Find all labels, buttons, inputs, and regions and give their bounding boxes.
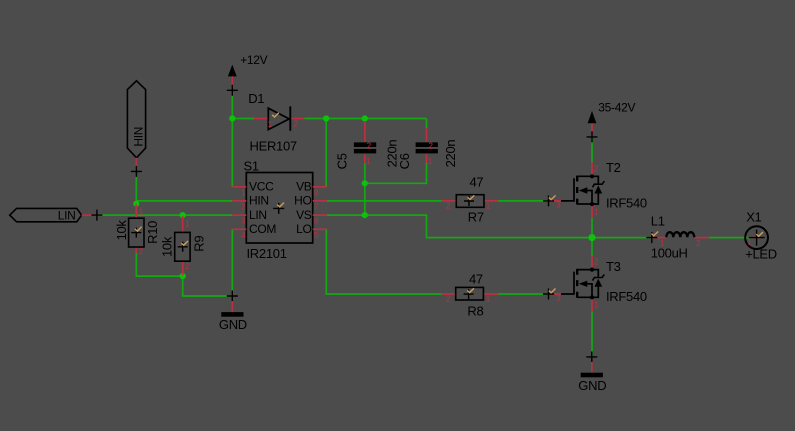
wire T3 source down to GND <box>591 311 593 357</box>
svg-text:LO: LO <box>296 222 311 236</box>
svg-text:HO: HO <box>294 194 311 208</box>
wire L1 to X1 <box>709 237 751 239</box>
node D1 cathode / VB bootstrap junction <box>323 115 329 121</box>
svg-text:35-42V: 35-42V <box>598 101 635 115</box>
wire +12V node to D1 anode <box>232 118 254 120</box>
svg-text:+LED: +LED <box>745 247 777 262</box>
pin cross T3 gate with origin mark <box>543 289 556 300</box>
svg-text:HIN: HIN <box>132 127 146 147</box>
capacitor C5 220n <box>354 121 376 163</box>
pin cross +12V <box>227 85 238 96</box>
svg-text:C6: C6 <box>397 153 412 169</box>
resistor R10 10k <box>129 204 144 253</box>
svg-text:10k: 10k <box>159 236 174 257</box>
svg-text:220n: 220n <box>443 140 458 168</box>
svg-text:+12V: +12V <box>240 53 267 67</box>
pin VB (pin 8) of S1 <box>313 186 327 188</box>
wire 35-42V supply down to T2 drain <box>591 137 593 162</box>
svg-text:R9: R9 <box>191 236 206 252</box>
svg-text:10k: 10k <box>114 220 129 241</box>
svg-text:R10: R10 <box>145 221 160 244</box>
svg-text:T3: T3 <box>606 259 621 274</box>
ground GND (left, COM) <box>221 291 243 317</box>
node switch-node junction <box>588 234 595 241</box>
inductor L1 100uH <box>652 232 709 237</box>
node VS net junction <box>362 212 368 218</box>
supply 35-42V <box>588 111 597 137</box>
wire LIN flag to IC pin LIN <box>97 214 232 216</box>
wire HO pin to R7 <box>327 200 442 202</box>
wire cap-bottom node down to VS net <box>364 183 366 215</box>
op-amp U1 : IC S1 IR2101 gate driver box <box>246 173 312 244</box>
svg-text:GND: GND <box>219 317 247 332</box>
pin HIN (pin 2) of S1 <box>232 200 246 202</box>
wire +12V rail down to VCC <box>231 90 233 187</box>
svg-text:VB: VB <box>296 180 312 194</box>
svg-text:X1: X1 <box>746 209 761 224</box>
wire R8 to T3 gate <box>498 293 548 295</box>
svg-text:VCC: VCC <box>249 180 274 194</box>
transistor T3 IRF540 <box>549 256 605 312</box>
svg-text:IR2101: IR2101 <box>247 246 287 261</box>
svg-text:HER107: HER107 <box>250 139 297 154</box>
svg-text:HIN: HIN <box>249 194 269 208</box>
node +12V / D1 anode junction <box>229 115 235 121</box>
wire T2 source down to switch node <box>591 218 593 238</box>
node LIN / R9 junction <box>180 212 186 218</box>
pin HO (pin 7) of S1 <box>313 200 327 202</box>
svg-text:C5: C5 <box>335 153 350 169</box>
pin cross L1 with origin mark <box>646 232 658 244</box>
node R9/R10 bottom junction <box>180 273 186 279</box>
pin cross LIN <box>91 210 102 221</box>
resistor R8 47 <box>441 287 498 300</box>
ground GND (right, T3 source) <box>581 351 603 377</box>
wire R7 to T2 gate <box>498 200 548 202</box>
svg-text:LIN: LIN <box>58 208 76 222</box>
wire cap-bottom node to C6 bottom <box>365 163 427 184</box>
wire R9/R10 node to GND <box>183 276 233 296</box>
capacitor C6 220n <box>416 128 438 163</box>
wire R10 bottom to node <box>136 253 182 276</box>
pin COM (pin 4) of S1 <box>232 228 246 230</box>
wire C5 bottom to node <box>364 163 366 184</box>
wire switch node down to T3 drain <box>591 238 593 256</box>
wire switch node to L1 <box>592 237 652 239</box>
transistor T2 IRF540 <box>549 162 605 218</box>
node C5/C6 bottom junction <box>362 180 368 186</box>
svg-text:R7: R7 <box>468 209 484 224</box>
wire HIN node to IC pin HIN <box>136 200 232 202</box>
svg-text:COM: COM <box>249 222 276 236</box>
node HIN / R10 junction <box>133 201 139 207</box>
wire HIN flag down to node <box>135 176 137 204</box>
resistor R7 47 <box>441 195 498 208</box>
svg-text:IRF540: IRF540 <box>606 289 647 304</box>
svg-text:L1: L1 <box>651 214 665 229</box>
wire VS pin to switch node <box>327 215 592 238</box>
pin cross 35-42V <box>587 131 598 142</box>
svg-text:IRF540: IRF540 <box>606 196 647 211</box>
pin LO (pin 5) of S1 <box>313 228 327 230</box>
svg-text:100uH: 100uH <box>651 246 688 261</box>
svg-text:S1: S1 <box>244 158 259 173</box>
wire D1 cathode to C5/C6 tops <box>304 118 426 120</box>
connector flag HIN <box>127 81 145 172</box>
svg-text:R8: R8 <box>467 304 483 319</box>
wire bootstrap node down to VB pin <box>325 119 327 187</box>
wire LO pin down and right to R8 <box>326 229 441 294</box>
resistor R9 10k <box>175 216 190 276</box>
pin LIN (pin 3) of S1 <box>232 214 246 216</box>
origin cross S1 <box>273 203 284 214</box>
pin cross HIN <box>131 166 142 177</box>
supply +12V <box>228 65 237 91</box>
connector flag LIN <box>10 208 97 221</box>
svg-text:D1: D1 <box>248 91 264 106</box>
svg-text:47: 47 <box>469 272 483 287</box>
connector X1 +LED <box>745 226 768 249</box>
node C5 top junction <box>362 115 368 121</box>
svg-text:GND: GND <box>578 378 606 393</box>
svg-text:T2: T2 <box>606 160 621 175</box>
pin VCC (pin 1) of S1 <box>232 186 246 188</box>
pin VS (pin 6) of S1 <box>313 214 327 216</box>
pin cross T2 gate with origin mark <box>543 195 556 206</box>
wire corner down to C6 top <box>426 119 428 129</box>
diode D1 HER107 <box>254 106 304 131</box>
svg-text:VS: VS <box>296 208 312 222</box>
wire COM pin down to GND <box>231 229 233 296</box>
svg-text:47: 47 <box>470 174 484 189</box>
svg-text:LIN: LIN <box>249 208 267 222</box>
